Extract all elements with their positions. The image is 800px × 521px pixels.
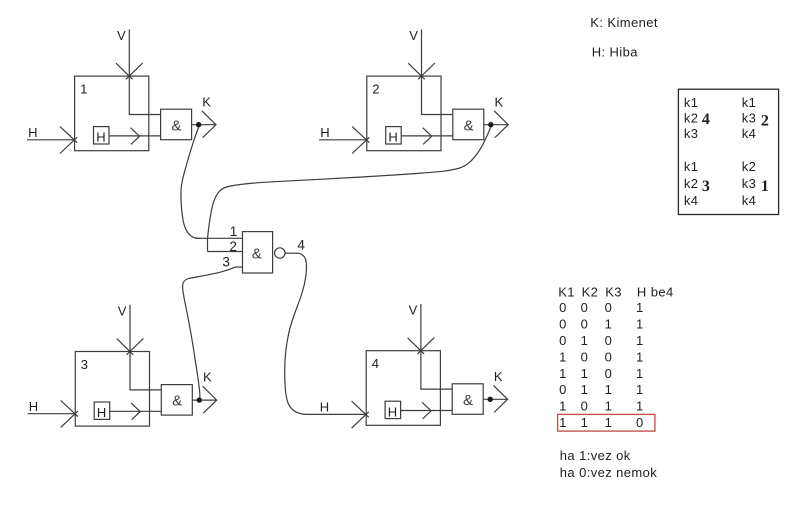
- svg-text:1: 1: [581, 415, 589, 430]
- K output wire module 2: [484, 124, 509, 126]
- arrowhead internal wire module 2: [423, 128, 432, 145]
- module 4 box: [366, 351, 440, 426]
- svg-text:1: 1: [605, 415, 613, 430]
- svg-text:&: &: [464, 117, 474, 134]
- svg-text:4: 4: [372, 356, 380, 371]
- svg-text:H: H: [388, 130, 398, 145]
- H sub-box module 3: [94, 402, 110, 419]
- H sub-box module 4: [385, 401, 401, 418]
- wire H sub-box to AND gate module 3: [110, 410, 162, 412]
- svg-text:1: 1: [559, 399, 567, 414]
- K output arrowhead module 3: [203, 386, 217, 413]
- svg-text:0: 0: [559, 333, 567, 348]
- svg-text:H: H: [96, 130, 106, 145]
- svg-text:1: 1: [559, 366, 567, 381]
- svg-text:k1: k1: [742, 95, 757, 110]
- svg-text:K3: K3: [605, 285, 622, 300]
- svg-text:1: 1: [636, 316, 644, 331]
- K output wire module 1: [192, 124, 217, 126]
- svg-text:V: V: [118, 304, 127, 319]
- svg-text:0: 0: [559, 300, 567, 315]
- svg-text:0: 0: [605, 300, 613, 315]
- svg-text:2: 2: [372, 81, 380, 96]
- wire H sub-box to AND gate module 2: [401, 135, 453, 137]
- K output junction dot module 4: [488, 397, 493, 402]
- svg-text:k2: k2: [684, 176, 699, 191]
- svg-text:3: 3: [81, 357, 89, 372]
- svg-text:k4: k4: [742, 193, 757, 208]
- H input wire module 3: [28, 413, 76, 415]
- K output junction dot module 1: [196, 122, 201, 127]
- svg-text:K: K: [202, 94, 211, 109]
- wire H sub-box to AND gate module 1: [109, 135, 161, 137]
- svg-text:1: 1: [761, 178, 769, 195]
- K output arrowhead module 1: [202, 111, 216, 138]
- wire module 3 K to NAND input 3: [183, 267, 236, 397]
- svg-text:V: V: [117, 28, 126, 43]
- H input wire module 2: [319, 139, 367, 141]
- svg-text:1: 1: [636, 399, 644, 414]
- svg-text:1: 1: [636, 366, 644, 381]
- grouping table box: [678, 89, 778, 214]
- svg-text:&: &: [172, 393, 182, 410]
- V input wire module 2: [422, 29, 453, 114]
- svg-text:H: H: [97, 405, 107, 420]
- svg-text:K: Kimenet: K: Kimenet: [590, 15, 658, 30]
- svg-text:H: H: [388, 404, 398, 419]
- wire module 1 K to NAND input 1: [181, 127, 201, 238]
- V arrowhead module 1: [116, 63, 143, 79]
- svg-text:1: 1: [581, 366, 589, 381]
- svg-text:ha 0:vez nemok: ha 0:vez nemok: [560, 465, 657, 480]
- module 2 box: [367, 76, 441, 151]
- arrowhead internal wire module 1: [131, 128, 140, 145]
- svg-text:k1: k1: [684, 159, 699, 174]
- svg-text:k3: k3: [742, 110, 757, 125]
- svg-text:1: 1: [636, 382, 644, 397]
- svg-text:H: H: [320, 400, 330, 415]
- svg-text:H be4: H be4: [637, 285, 674, 300]
- wire H sub-box to AND gate module 4: [401, 410, 453, 412]
- svg-text:H: H: [29, 399, 39, 414]
- vertical connector node: [207, 238, 209, 251]
- svg-text:0: 0: [581, 349, 589, 364]
- svg-text:1: 1: [605, 382, 613, 397]
- NAND gate inverter bubble: [275, 248, 285, 258]
- svg-text:1: 1: [636, 333, 644, 348]
- H arrowhead module 2: [352, 127, 369, 154]
- V input wire module 1: [129, 29, 160, 114]
- V arrowhead module 2: [408, 63, 435, 79]
- svg-text:3: 3: [702, 178, 710, 195]
- wire NAND output 4 to module 4 H input: [285, 253, 307, 414]
- svg-text:4: 4: [297, 237, 305, 252]
- H sub-box module 1: [94, 127, 110, 144]
- AND gate box module 3: [161, 385, 192, 416]
- svg-text:1: 1: [636, 349, 644, 364]
- svg-text:0: 0: [636, 415, 644, 430]
- K output junction dot module 3: [197, 397, 202, 402]
- NAND gate U5 box: [243, 232, 273, 273]
- svg-text:V: V: [409, 28, 418, 43]
- H sub-box module 2: [386, 127, 402, 144]
- highlight box on last row: [558, 414, 655, 431]
- K output arrowhead module 2: [494, 111, 508, 138]
- svg-text:K1: K1: [558, 285, 575, 300]
- svg-text:4: 4: [702, 111, 710, 128]
- K output wire module 4: [483, 398, 508, 400]
- V input wire module 4: [421, 304, 452, 389]
- svg-text:&: &: [463, 392, 473, 409]
- H arrowhead module 4: [352, 401, 369, 428]
- svg-text:1: 1: [559, 349, 567, 364]
- V input wire module 3: [130, 305, 161, 390]
- module 1 box: [75, 76, 149, 151]
- svg-text:0: 0: [581, 316, 589, 331]
- svg-text:1: 1: [581, 382, 589, 397]
- svg-text:K: K: [203, 370, 212, 385]
- wire input 1: [195, 237, 243, 239]
- svg-text:0: 0: [605, 349, 613, 364]
- arrowhead internal wire module 3: [131, 403, 140, 420]
- svg-text:1: 1: [636, 300, 644, 315]
- wire output 4 stub: [285, 252, 299, 254]
- svg-text:0: 0: [581, 399, 589, 414]
- svg-text:2: 2: [761, 113, 769, 130]
- svg-text:0: 0: [605, 333, 613, 348]
- svg-text:k4: k4: [742, 126, 757, 141]
- svg-text:k1: k1: [684, 95, 699, 110]
- svg-text:K: K: [495, 94, 504, 109]
- svg-text:1: 1: [605, 316, 613, 331]
- V arrowhead module 4: [408, 338, 435, 354]
- AND gate box module 1: [161, 109, 192, 140]
- svg-text:V: V: [409, 303, 418, 318]
- wire module 2 K to NAND input 2: [208, 127, 491, 238]
- module 3 box: [75, 352, 149, 427]
- svg-text:k3: k3: [742, 176, 757, 191]
- svg-text:0: 0: [559, 316, 567, 331]
- wire input 3: [235, 266, 243, 268]
- K output junction dot module 2: [488, 122, 493, 127]
- svg-text:1: 1: [230, 224, 238, 239]
- svg-text:0: 0: [605, 366, 613, 381]
- H arrowhead module 3: [61, 400, 78, 427]
- svg-text:1: 1: [581, 333, 589, 348]
- svg-text:k4: k4: [684, 193, 699, 208]
- H input wire module 1: [27, 139, 75, 141]
- svg-text:1: 1: [605, 399, 613, 414]
- svg-text:k2: k2: [684, 110, 699, 125]
- svg-text:K: K: [494, 369, 503, 384]
- AND gate box module 2: [453, 109, 484, 140]
- H input wire module 4: [306, 413, 366, 415]
- K output arrowhead module 4: [494, 385, 508, 412]
- svg-text:k2: k2: [742, 159, 757, 174]
- svg-text:k3: k3: [684, 126, 699, 141]
- svg-text:1: 1: [80, 81, 88, 96]
- svg-text:H: H: [320, 125, 330, 140]
- svg-text:ha 1:vez ok: ha 1:vez ok: [560, 448, 631, 463]
- svg-text:0: 0: [581, 300, 589, 315]
- svg-text:K2: K2: [582, 285, 599, 300]
- H arrowhead module 1: [60, 127, 77, 154]
- svg-text:H: Hiba: H: Hiba: [592, 45, 639, 60]
- svg-text:H: H: [28, 125, 38, 140]
- svg-text:&: &: [252, 246, 262, 263]
- svg-text:1: 1: [559, 415, 567, 430]
- svg-text:&: &: [171, 117, 181, 134]
- K output wire module 3: [192, 399, 217, 401]
- AND gate box module 4: [452, 384, 483, 415]
- svg-text:0: 0: [559, 382, 567, 397]
- V arrowhead module 3: [117, 338, 144, 354]
- wire input 2: [208, 251, 243, 253]
- svg-text:3: 3: [222, 255, 230, 270]
- arrowhead internal wire module 4: [422, 402, 431, 419]
